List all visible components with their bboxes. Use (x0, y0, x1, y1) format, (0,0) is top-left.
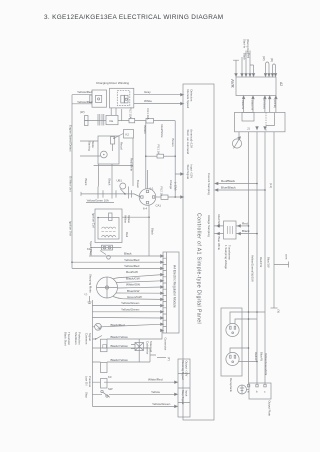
svg-text:Stepping Motor: Stepping Motor (89, 274, 93, 293)
flywheel magneto (97, 277, 118, 298)
controller output pin block (178, 359, 190, 417)
svg-text:Output +12V: Output +12V (185, 361, 189, 377)
module input arrows (161, 255, 164, 257)
svg-text:Yellow/Red: Yellow/Red (77, 100, 93, 104)
svg-text:FU2 1A: FU2 1A (160, 187, 164, 197)
AVR box (236, 77, 276, 96)
svg-text:Brown: Brown (171, 139, 175, 147)
svg-text:b: b (256, 390, 258, 394)
svg-text:Blue/Black: Blue/Black (221, 186, 236, 190)
drops from charging boxes (111, 108, 122, 121)
bus vertical 2 (256, 132, 258, 384)
svg-text:Charge: Charge (169, 180, 173, 190)
svg-text:K1: K1 (87, 247, 91, 251)
svg-text:com: com (285, 254, 289, 260)
svg-text:Black: Black (242, 229, 250, 233)
svg-text:Stop: Stop (85, 392, 89, 398)
bus vertical 4 (273, 132, 275, 308)
svg-text:Yellow/Red: Yellow/Red (124, 264, 140, 268)
svg-text:(Y): (Y) (277, 310, 281, 314)
svg-text:Carburetor: Carburetor (146, 341, 150, 354)
svg-text:Remote Speed: Remote Speed (186, 90, 190, 109)
svg-text:Input: Input (185, 390, 189, 396)
svg-text:Green/GW: Green/GW (127, 295, 142, 299)
svg-text:6-4: 6-4 (143, 207, 147, 211)
svg-text:Solenoid: Solenoid (149, 341, 153, 352)
svg-text:Blue White: Blue White (217, 237, 221, 251)
relay K2 (124, 130, 134, 139)
svg-text:Yellow/Green(W)/GW: Yellow/Green(W)/GW (251, 255, 255, 282)
svg-text:Engine Speed Detect: Engine Speed Detect (69, 125, 73, 152)
svg-text:Black/Red: Black/Red (111, 323, 125, 327)
svg-text:J1: J1 (247, 127, 250, 131)
svg-text:Red/W: Red/W (254, 352, 258, 361)
svg-text:White/GW: White/GW (126, 283, 140, 287)
switch SW (101, 390, 103, 392)
sampling voltage transformer (224, 221, 237, 239)
svg-text:Black/Yellow: Black/Yellow (111, 335, 129, 339)
svg-text:Stop Signal: Stop Signal (181, 390, 185, 405)
svg-text:White: White (144, 99, 152, 103)
svg-text:Detection: Detection (190, 90, 194, 102)
wire yellow/green bottom (92, 300, 177, 406)
left rail A (71, 95, 73, 269)
svg-text:Start: run command: Start: run command (186, 130, 190, 155)
svg-text:Da: Da (110, 119, 114, 123)
+12V tap (175, 121, 182, 174)
svg-text:Black: Black (108, 179, 112, 186)
svg-text:Pressure: Pressure (88, 376, 92, 388)
fuse FU1 1A (161, 195, 168, 199)
svg-text:Red/GW: Red/GW (126, 270, 138, 274)
connector CA1 (139, 189, 156, 206)
svg-text:(+12V): (+12V) (174, 182, 178, 191)
svg-text:c: c (264, 390, 266, 394)
magneto wires (113, 275, 162, 279)
svg-text:Start-In: Start-In (243, 39, 247, 49)
wire yellow/red upper (72, 94, 92, 96)
svg-text:Black: Black (151, 228, 155, 235)
svg-text:Low Oil: Low Oil (85, 376, 89, 386)
AVR top wires (233, 60, 239, 76)
svg-text:Yellow/Green/GW: Yellow/Green/GW (264, 353, 268, 375)
svg-text:(Remg Volt): (Remg Volt) (246, 39, 250, 54)
svg-text:Protection: Protection (78, 332, 82, 345)
svg-text:Start Signal: Start Signal (186, 165, 190, 180)
receptacle box (221, 308, 242, 376)
svg-text:Oil Alert Unit: Oil Alert Unit (69, 176, 73, 192)
arrows into controller from gray/white (181, 94, 184, 96)
wire yellow/red 2 (72, 267, 162, 269)
oil sensor transistor (95, 323, 102, 330)
svg-text:Receptacle: Receptacle (229, 378, 233, 392)
bus vertical 1 (248, 132, 250, 384)
battery row (81, 194, 141, 197)
svg-text:Recoil: Recoil (120, 142, 124, 150)
wire yellow/green 1 (79, 305, 162, 307)
svg-text:FU1 10A: FU1 10A (146, 109, 150, 120)
charging rotor winding stator box (110, 88, 134, 108)
exciter box below AVR (235, 112, 286, 131)
svg-text:Red/White: Red/White (130, 158, 134, 172)
CA1 to black wire (148, 205, 150, 256)
svg-text:Controller of A1 Simple-type D: Controller of A1 Simple-type Digital Pan… (196, 213, 202, 324)
svg-text:Common: Common (85, 333, 89, 345)
svg-text:Blue/GW: Blue/GW (127, 289, 139, 293)
svg-text:A4 Electric Regulator Module: A4 Electric Regulator Module (173, 265, 177, 308)
svg-text:White/Red: White/Red (148, 378, 163, 382)
svg-text:1 Sampling Voltage: 1 Sampling Voltage (224, 245, 228, 270)
wire blue/black (215, 189, 265, 191)
spark plug (91, 248, 121, 256)
svg-text:Connector: Connector (164, 338, 168, 351)
svg-text:Red/Black: Red/Black (221, 179, 236, 183)
svg-text:Ignition Coil: Ignition Coil (92, 213, 96, 228)
svg-text:Red: Red (247, 53, 251, 59)
svg-text:FU2 10A: FU2 10A (129, 108, 133, 119)
svg-text:Red White: Red White (217, 215, 221, 229)
svg-text:(L1): (L1) (269, 183, 273, 188)
wire to +12V rail (118, 120, 175, 122)
output plate (238, 385, 247, 394)
svg-text:Red/White: Red/White (160, 125, 164, 139)
ignition coil (95, 209, 122, 243)
AVR bottom wires (243, 97, 245, 113)
svg-text:FU1 1A: FU1 1A (157, 145, 161, 155)
svg-text:Yellow: Yellow (127, 215, 131, 224)
svg-text:Current Sampling: Current Sampling (207, 173, 211, 195)
svg-text:Charging Rotor Winding: Charging Rotor Winding (96, 81, 129, 85)
svg-text:AVR: AVR (230, 79, 235, 88)
svg-text:Brown: Brown (136, 180, 140, 188)
left rail B joins (72, 103, 92, 105)
svg-text:(Y): (Y) (167, 357, 171, 361)
fuse FU1 (146, 118, 154, 123)
svg-text:Motor: Motor (91, 141, 95, 148)
wires into CA1 (145, 121, 147, 189)
svg-text:A2: A2 (279, 82, 283, 86)
wire yellow/green 2 (92, 311, 162, 313)
ground tick (88, 296, 92, 304)
svg-text:Starting: Starting (88, 141, 92, 151)
svg-text:K2: K2 (126, 132, 130, 136)
wire yellow/red 1 (72, 261, 162, 263)
svg-text:Voltage Sampling: Voltage Sampling (207, 215, 211, 237)
svg-text:(White): (White) (273, 99, 277, 108)
K1 switch (100, 251, 106, 255)
svg-text:Yellow/Green: Yellow/Green (121, 301, 140, 305)
svg-text:Blue/W: Blue/W (241, 100, 245, 109)
svg-text:Yellow/Red: Yellow/Red (77, 90, 93, 94)
svg-text:SW: SW (108, 387, 113, 391)
svg-text:Yellow/Green: Yellow/Green (152, 402, 171, 406)
svg-text:K3: K3 (108, 375, 112, 379)
svg-text:UB1: UB1 (117, 179, 123, 183)
wire black to module (89, 255, 162, 257)
svg-text:Black/GW: Black/GW (126, 276, 140, 280)
svg-text:Shutdown: Shutdown (74, 332, 78, 345)
solenoid valve (138, 339, 140, 362)
svg-text:Brown: Brown (143, 126, 147, 134)
svg-text:Yellow/Red: Yellow/Red (124, 258, 140, 262)
svg-text:Gray: Gray (144, 90, 151, 94)
svg-text:Black/Yellow: Black/Yellow (111, 358, 129, 362)
wire gray (134, 94, 182, 96)
svg-text:Black: Black (124, 252, 132, 256)
wire red/black (215, 183, 257, 185)
svg-text:(W): (W) (80, 110, 85, 114)
svg-text:Ignition Unit: Ignition Unit (69, 221, 73, 236)
svg-text:(terminal)+12V: (terminal)+12V (190, 130, 194, 149)
left terminal block (85, 116, 89, 121)
svg-text:Blue/W: Blue/W (260, 352, 264, 361)
relay box 3 (101, 363, 108, 373)
svg-text:Input +12V: Input +12V (190, 165, 194, 179)
svg-text:(Yellow): (Yellow) (262, 99, 266, 109)
svg-text:3. KGE12EA/KGE13EA ELECTRICAL: 3. KGE12EA/KGE13EA ELECTRICAL WIRING DIA… (44, 14, 223, 21)
svg-text:Blue/1W: Blue/1W (267, 257, 271, 268)
svg-text:Yellow/Green: Yellow/Green (121, 307, 140, 311)
bus vertical 3 (264, 132, 266, 384)
connector UB1 (120, 183, 126, 189)
svg-text:Red: Red (125, 232, 129, 238)
AVR jumper loops (266, 62, 270, 76)
A4 regulator module (163, 252, 179, 333)
svg-text:Threshold: Threshold (67, 332, 71, 345)
current transformer (232, 139, 241, 148)
svg-text:Yellow/Green 10A: Yellow/Green 10A (87, 198, 109, 202)
svg-text:(R): (R) (270, 58, 274, 62)
Y bracket (157, 357, 166, 359)
svg-text:Red/1W: Red/1W (259, 257, 263, 267)
wire white (134, 103, 182, 105)
svg-text:(-): (-) (85, 292, 88, 296)
svg-text:Black: Black (243, 53, 247, 60)
svg-text:Black: Black (84, 179, 88, 186)
row 11 (92, 317, 162, 320)
svg-text:Running Signal: Running Signal (181, 361, 185, 380)
Y tap (271, 307, 278, 309)
relay box 1 (101, 339, 108, 352)
svg-text:CA1: CA1 (156, 204, 162, 208)
svg-text:Black/W: Black/W (251, 100, 255, 111)
svg-text:6-1: 6-1 (150, 187, 154, 191)
switch to battery (120, 189, 125, 194)
fuse FU3 (146, 155, 157, 157)
svg-text:Output Plate: Output Plate (268, 401, 272, 417)
svg-text:Transformer: Transformer (228, 245, 232, 260)
svg-text:Yellow: Yellow (151, 390, 161, 394)
svg-text:Black Start: Black Start (64, 332, 68, 346)
svg-text:(W): (W) (262, 56, 266, 61)
diode box Da (106, 115, 118, 124)
svg-text:Red: Red (242, 221, 248, 225)
wire with capacitors (88, 120, 106, 122)
starting motor box (98, 136, 119, 164)
svg-text:Black/Yellow: Black/Yellow (111, 344, 129, 348)
fuse FU2 (129, 118, 135, 122)
charging rotor winding connector box (92, 90, 107, 107)
svg-text:Yellow: Yellow (124, 215, 128, 224)
relay box 2 (103, 345, 107, 349)
svg-text:Signal: Signal (88, 333, 92, 341)
controller of A1 box (183, 84, 214, 420)
relay K3 (101, 379, 108, 389)
